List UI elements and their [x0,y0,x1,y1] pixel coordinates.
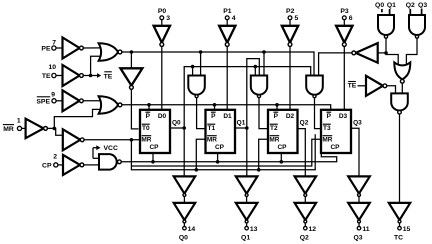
wire [246,197,248,203]
svg-text:14: 14 [188,226,196,233]
wire [304,197,306,203]
inverter Q3 buffer A [348,176,370,193]
svg-text:T3: T3 [323,125,331,132]
wire [148,105,150,111]
terminal PE [52,46,56,50]
svg-text:MR: MR [269,136,279,143]
terminal TC output [398,226,402,230]
wire [406,38,417,66]
wire [289,20,291,26]
wire [130,52,132,68]
wire [56,75,63,77]
wire [401,83,403,94]
terminal P2 [288,16,292,20]
wire [22,127,26,129]
wire T0-bar [131,89,138,129]
junction TE-bar [89,74,93,78]
svg-text:Q2: Q2 [300,235,309,242]
nand gate T2 [251,76,267,95]
wire [263,52,265,77]
wire [276,105,278,111]
junction T at T0 [130,50,134,54]
svg-text:2: 2 [53,154,57,161]
wire [200,52,202,77]
wire [183,223,185,227]
junction P-bar stub 1 [213,103,217,107]
wire T bus [122,52,314,77]
junction MR node [53,127,57,131]
svg-text:Q1: Q1 [237,119,246,126]
wire [183,128,185,176]
svg-text:Q0: Q0 [172,119,181,126]
svg-text:10: 10 [49,64,57,71]
wire [83,47,102,49]
svg-text:T2: T2 [270,125,278,132]
wire MR3 feeder [131,139,321,166]
nand gate Q2Q3 [409,15,425,35]
wire [358,223,360,227]
svg-text:P1: P1 [223,8,232,15]
svg-text:4: 4 [232,15,236,22]
svg-text:D2: D2 [286,113,295,120]
wire carry to T3 [319,53,352,77]
inverter P1 [219,26,235,43]
svg-text:11: 11 [362,226,369,233]
svg-text:P: P [146,113,151,120]
junction Q0 [182,126,186,130]
wire [351,128,359,176]
junction Q1 [245,126,249,130]
svg-text:P: P [327,113,332,120]
wire [399,223,401,227]
nand gate Q0Q1 [378,15,394,35]
svg-text:P0: P0 [158,8,167,15]
wire [226,20,228,26]
wire [214,105,216,111]
svg-text:PE: PE [41,45,51,52]
inverter P0 [154,26,170,43]
svg-text:TC: TC [394,235,403,242]
svg-text:T1: T1 [208,125,216,132]
svg-text:P: P [211,113,216,120]
svg-text:CP: CP [215,144,225,151]
node VCC tie [93,157,99,159]
svg-text:Q0: Q0 [179,235,188,242]
wire P-bar bus [122,105,331,111]
inverter TE buffer [63,65,80,86]
inverter CP buffer [63,155,80,175]
wire [280,152,282,162]
svg-text:15: 15 [403,226,411,233]
inverter TC buffer [389,203,410,220]
and gate CP-VCC [99,154,117,170]
inverter P2 [282,26,298,43]
terminal P1 [225,16,229,20]
wire [298,129,306,177]
junction CP stub [216,160,220,164]
svg-text:CP: CP [42,162,52,169]
wire D1 [226,46,228,110]
flip-flop FF0 [140,110,170,153]
terminal CP [54,163,58,167]
wire [170,127,184,129]
junction MR stub [195,168,199,172]
svg-text:Q0: Q0 [375,2,384,9]
inverter Q2 buffer B [295,203,317,220]
svg-text:T0: T0 [142,125,150,132]
terminal Q3 output [357,226,361,230]
svg-text:P2: P2 [286,8,295,15]
buffer MR second [63,129,81,150]
svg-text:CP: CP [277,144,287,151]
wire D3 [343,46,345,110]
wire T1-bar [197,98,206,129]
wire [304,223,306,227]
svg-text:TE: TE [42,73,51,80]
wire CP bus [121,154,336,162]
svg-text:TE: TE [104,73,113,80]
svg-text:Q3: Q3 [353,235,362,242]
wire [389,9,391,16]
wire [56,47,63,49]
svg-text:Q2: Q2 [300,119,309,126]
wire [387,86,396,95]
wire [421,9,423,16]
junction CP stub [280,160,284,164]
wire [83,100,102,102]
junction Q0 nand1 [191,65,195,69]
wire [183,197,185,203]
wire [152,152,154,162]
flip-flop FF1 [206,110,236,153]
wire [378,52,386,54]
wire [386,38,398,66]
junction T nand2 [262,50,266,54]
svg-text:7: 7 [52,39,56,46]
wire [358,85,367,87]
wire D2 [289,46,291,110]
svg-text:P3: P3 [340,8,349,15]
wire TC [399,114,401,203]
svg-text:9: 9 [51,91,55,98]
inverter carry [356,43,378,63]
wire [83,75,90,77]
inverter SPE buffer [63,90,80,111]
flip-flop FF3 [321,110,351,153]
flip-flop FF2 [268,110,298,153]
svg-text:MR: MR [141,136,151,143]
wire Q1 loop [247,59,259,128]
svg-text:Q1: Q1 [387,2,396,9]
terminal P0 [160,16,164,20]
wire [343,20,345,26]
inverter Q2 buffer A [295,176,317,193]
svg-text:MR: MR [3,126,14,133]
svg-text:5: 5 [295,15,299,22]
svg-text:D1: D1 [223,113,232,120]
svg-text:D3: D3 [339,113,348,120]
wire [259,139,268,170]
wire Q0 bus [184,67,311,128]
wire T2-bar [259,98,268,129]
nor gate U1 count-enable [99,43,119,61]
wire [217,152,219,162]
inverter Q1 buffer A [236,176,258,193]
wire Q0 dashed [381,9,383,16]
nand gate T3 [306,76,323,95]
wire [58,164,63,166]
wire [358,197,360,203]
buffer TE right [366,76,383,96]
wire [196,139,205,170]
wire [47,128,62,135]
inverter Q3 buffer B [348,203,370,220]
inverter PE buffer [63,38,80,59]
svg-text:12: 12 [309,226,317,233]
svg-text:TE: TE [348,83,357,90]
wire [254,67,256,77]
junction nandA out [384,51,388,55]
wire [54,109,102,128]
svg-text:SPE: SPE [36,98,50,105]
svg-text:D0: D0 [158,113,167,120]
terminal Q1 output [245,226,249,230]
inverter P3 [336,26,352,43]
nand gate TC [391,93,408,110]
junction Q0 nand2 [254,65,258,69]
terminal TE [52,73,56,77]
svg-text:MR: MR [207,136,217,143]
inverter T0 [120,68,142,85]
junction P-bar stub 0 [147,103,151,107]
nor gate U2 parallel-enable [99,96,119,114]
svg-text:P: P [274,113,279,120]
svg-text:3: 3 [166,15,170,22]
svg-text:Q1: Q1 [241,235,250,242]
terminal Q0 output [183,226,187,230]
junction P-bar stub 2 [275,103,279,107]
junction MR-bar [130,138,134,142]
wire [409,9,411,16]
wire [192,67,194,77]
wire [56,100,62,102]
svg-text:1: 1 [17,117,21,124]
junction MR stub [257,168,261,172]
wire [246,128,248,176]
inverter MR input buffer [26,119,44,139]
svg-text:VCC: VCC [104,145,118,152]
wire T3-bar [315,98,322,129]
svg-text:CP: CP [149,144,159,151]
svg-text:MR: MR [322,136,332,143]
svg-text:6: 6 [349,15,353,22]
svg-text:Q3: Q3 [353,119,362,126]
wire [235,127,247,129]
junction T nand1 [199,50,203,54]
svg-text:Q2: Q2 [406,2,415,9]
terminal Q2 output [304,226,308,230]
nand gate T1 [188,76,205,95]
wire [84,164,99,166]
svg-text:CP: CP [330,144,340,151]
junction CP stub [151,160,155,164]
wire [161,20,163,26]
svg-text:Q3: Q3 [418,2,427,9]
terminal MR [17,126,21,130]
node TE-bar arrow [92,75,98,77]
terminal P3 [342,16,346,20]
or gate TC [394,62,410,79]
wire [246,223,248,227]
inverter Q0 buffer B [174,203,196,220]
wire D0 [161,46,163,110]
svg-text:13: 13 [250,226,258,233]
wire MR line [84,139,140,141]
inverter Q0 buffer A [174,176,196,193]
inverter Q1 buffer B [236,203,258,220]
wire MR bus [131,134,315,170]
wire [91,56,102,75]
terminal SPE [52,99,56,103]
